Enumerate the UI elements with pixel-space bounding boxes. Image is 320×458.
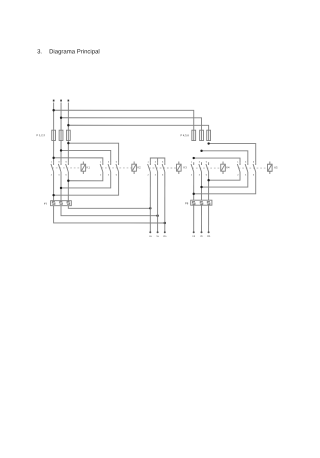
dashed actuator link K4 (192, 167, 221, 169)
wire K1 out 1 to F7 (53, 176, 55, 201)
wire terminal Ua (149, 176, 151, 232)
wire L2 fuse to K1 (60, 140, 62, 162)
svg-text:Diagrama Principal: Diagrama Principal (49, 49, 100, 55)
contactor K3 pole 2 (157, 162, 159, 165)
svg-text:K4: K4 (226, 165, 230, 169)
wire tap to K5 pole (202, 151, 248, 162)
wire K1 out 2 to F7 (60, 176, 62, 201)
contactor K5 pole 2 (247, 162, 249, 165)
wire K1 out 3 to F7 (67, 176, 69, 201)
contactor K1 pole 1 (53, 162, 55, 165)
wire terminal Wa (164, 176, 166, 232)
contactor K4 pole 3 (208, 162, 210, 165)
fuse F4 (192, 130, 196, 140)
wire L3 fuse to K1 (67, 140, 69, 162)
dashed actuator link K2 (101, 167, 132, 169)
wire L2 rail (60, 103, 62, 131)
dashed actuator link K1 (52, 167, 81, 169)
svg-text:F8: F8 (185, 201, 189, 205)
svg-text:3.: 3. (37, 49, 42, 55)
wire L1 fuse to K1 (53, 140, 55, 162)
svg-text:K2: K2 (137, 165, 141, 169)
contactor K3 pole 3 (164, 162, 166, 165)
wire tap to K5 pole (209, 144, 256, 163)
dashed actuator link K5 (239, 167, 268, 169)
node L1 label (53, 100, 55, 102)
wire tap to K2 pole (54, 158, 103, 162)
fuse F2 (59, 130, 63, 140)
dashed actuator link K3 (149, 167, 177, 169)
contactor K5 pole 1 (239, 162, 241, 165)
contactor K2 pole 2 (110, 162, 112, 165)
wire K5 out 3 tie (209, 176, 240, 180)
fuse F3 (66, 130, 70, 140)
fuse F1 (52, 130, 56, 140)
svg-text:K5: K5 (274, 165, 278, 169)
wire tap to K2 pole (61, 150, 111, 162)
contactor K1 pole 3 (67, 162, 69, 165)
svg-text:F7: F7 (44, 202, 48, 206)
wire F7 out to terminal (54, 206, 165, 223)
contactor K3 pole 1 (149, 162, 151, 165)
wire L1 rail (53, 103, 55, 131)
svg-text:K1: K1 (87, 165, 91, 169)
wire K2 out 1 tie (54, 176, 119, 195)
contactor K4 pole 1 (193, 162, 195, 165)
thermal overload relay F7 (51, 201, 72, 206)
thermal overload relay F8 (191, 200, 212, 205)
coil K1 (82, 161, 84, 164)
wire K3 star bridge (150, 158, 165, 162)
wire F7 out to terminal (61, 206, 158, 216)
wire tap to K2 pole (68, 143, 118, 162)
wire L3 rail (67, 103, 69, 131)
wire tap L2 to right fuses (61, 118, 202, 130)
wire tap L1 to right fuses (54, 110, 194, 130)
node L2 label (60, 100, 62, 102)
svg-text:K3: K3 (183, 165, 187, 169)
wire terminal Vb (200, 205, 202, 232)
wire K2 out 3 tie (68, 176, 103, 181)
svg-text:F 4,5,6: F 4,5,6 (181, 133, 190, 137)
wire terminal Wb (208, 205, 210, 232)
wire terminal Va (157, 176, 159, 232)
coil K5 (269, 162, 271, 165)
contactor K5 pole 3 (255, 162, 257, 165)
svg-text:F 1,2,3: F 1,2,3 (37, 133, 46, 137)
wire K5 out 1 tie (194, 176, 256, 194)
coil K4 (222, 162, 224, 165)
contactor K4 pole 2 (201, 162, 203, 165)
fuse F5 (200, 130, 204, 140)
wire F7 out to terminal (68, 206, 150, 209)
wire K4 out 1 to F8 (193, 176, 195, 200)
coil K2 (133, 161, 135, 164)
wire tap to K5 pole (194, 158, 240, 162)
wire K4 out 3 to F8 (208, 176, 210, 200)
wire K4 out 2 to F8 (201, 176, 203, 200)
contactor K2 pole 3 (118, 162, 120, 165)
fuse F6 (207, 130, 211, 140)
wire K5 out 2 tie (202, 176, 248, 187)
contactor K1 pole 2 (60, 162, 62, 165)
wire tap L3 to right fuses (68, 125, 208, 130)
contactor K2 pole 1 (102, 162, 104, 165)
wire K2 out 2 tie (61, 176, 111, 188)
coil K3 (178, 162, 180, 165)
wire terminal Ub (193, 205, 195, 232)
node L3 label (68, 100, 70, 102)
